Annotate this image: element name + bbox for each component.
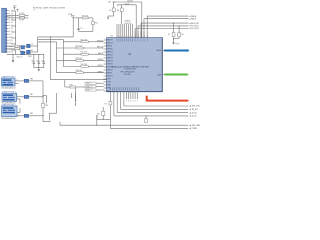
IC U1 body (107, 38, 163, 92)
svg-text:EP GND: EP GND (124, 74, 131, 76)
svg-text:R14 10K: R14 10K (81, 64, 88, 66)
svg-text:090-0506-0301-00: 090-0506-0301-00 (2, 118, 16, 120)
svg-text:EEDIO: EEDIO (107, 40, 113, 42)
wire top fan USBDM (147, 15, 197, 38)
svg-text:RX: RX (11, 22, 13, 24)
wire bottom net A_USB_DWN (60, 124, 201, 127)
svg-text:RX: RX (31, 50, 33, 52)
wire Q cluster interconnect (20, 44, 38, 53)
transistor Q3 (27, 44, 31, 47)
wire stub down (75, 88, 76, 101)
capacitor C2 (36, 54, 40, 67)
wire top fan PHY_LED1 (138, 25, 199, 38)
IC U1 left pins (104, 40, 114, 93)
svg-text:P5V0: P5V0 (176, 44, 180, 46)
svg-text:8: 8 (9, 31, 10, 33)
svg-text:R7: R7 (168, 34, 170, 36)
resistor R9 vertical (105, 91, 112, 128)
svg-text:4: 4 (135, 100, 136, 102)
resistor R19 (73, 15, 93, 19)
svg-text:◂PHY_LED1: ◂PHY_LED1 (189, 25, 199, 28)
svg-text:C3: C3 (41, 60, 43, 62)
IC U1 top pins (117, 24, 149, 41)
transistor Q4 (27, 50, 31, 54)
wire hook left (107, 16, 114, 19)
svg-text:R1 33: R1 33 (19, 13, 24, 15)
power flag top-center (108, 2, 115, 4)
svg-text:C4: C4 (80, 28, 82, 30)
svg-text:GPIO0: GPIO0 (97, 59, 103, 61)
svg-text:EECLK: EECLK (107, 43, 114, 45)
svg-text:R16: R16 (70, 84, 73, 86)
resistor R7 (168, 23, 175, 43)
capacitor C3 (41, 54, 45, 67)
svg-text:2: 2 (17, 99, 18, 101)
note text (33, 6, 66, 11)
svg-text:FB1: FB1 (30, 94, 33, 96)
svg-text:9: 9 (9, 34, 10, 36)
wire bottom net A_ID_SD (117, 111, 197, 114)
svg-text:1: 1 (9, 10, 10, 12)
resistor R2 (7, 17, 29, 22)
resistor R12 row (63, 52, 104, 55)
svg-text:27: 27 (11, 34, 13, 36)
wire thick blue USB bus (162, 49, 189, 52)
wire top fan VBUS_DET (141, 22, 199, 38)
svg-text:R9: R9 (105, 103, 107, 105)
wire top fan PHY_LED2 (135, 27, 199, 37)
wire net CLK top (118, 3, 137, 37)
svg-text:VBUS: VBUS (156, 50, 162, 52)
svg-text:◂USBDM: ◂USBDM (189, 15, 197, 18)
svg-text:VDD3V3: VDD3V3 (127, 1, 133, 3)
svg-text:1: 1 (17, 95, 18, 97)
svg-text:4: 4 (9, 19, 10, 21)
ferrite bead FB2 (17, 113, 38, 118)
svg-text:C2: C2 (36, 60, 38, 62)
svg-text:TXN_T: TXN_T (86, 86, 93, 88)
svg-text:6: 6 (9, 25, 10, 27)
wire bottom net A_TPWM (110, 127, 197, 130)
svg-text:XCLK: XCLK (125, 3, 129, 5)
ferrite bead FB1 (17, 94, 38, 99)
wire long bottom net (59, 122, 61, 126)
svg-text:R10 10K: R10 10K (81, 39, 88, 41)
svg-text:3V3: 3V3 (108, 2, 111, 4)
capacitor C4 (77, 18, 82, 31)
svg-text:G2: G2 (11, 10, 13, 12)
svg-text:R20: R20 (95, 23, 98, 25)
svg-text:NOTE: ALL CAPS X7R 0402 16V MI: NOTE: ALL CAPS X7R 0402 16V MIN (33, 6, 66, 9)
svg-text:RXP_T: RXP_T (86, 90, 93, 92)
resistor R8 (174, 25, 184, 38)
svg-text:3V3: 3V3 (13, 6, 16, 8)
connector J3 (2, 106, 17, 117)
svg-text:R11 10K: R11 10K (76, 46, 83, 48)
connector J2 (2, 93, 17, 101)
svg-text:R13 10K: R13 10K (76, 58, 83, 60)
connector J1 (2, 8, 7, 52)
svg-text:R6: R6 (117, 10, 119, 12)
resistor R21 (97, 107, 105, 120)
svg-text:TX: TX (31, 44, 33, 46)
power arrow down (172, 42, 179, 45)
IC U1 bottom pins (110, 87, 139, 102)
wire bottom net A_MII_INT (121, 108, 198, 111)
resistor R10 row (63, 39, 103, 42)
wire thick green link net (162, 73, 189, 76)
svg-text:GPIO2: GPIO2 (107, 55, 112, 57)
transistor Q2 (21, 51, 25, 55)
power flag VCC top-left (13, 6, 16, 10)
wire ground rail below connector (7, 54, 44, 60)
wire mesh to resistor ladder (38, 18, 74, 72)
svg-text:GPIO7: GPIO7 (107, 70, 112, 72)
wire connector pin bus vertical (12, 11, 16, 54)
wire bottom fan verticals (114, 91, 124, 116)
resistor R15 row (57, 70, 104, 73)
resistor R17 (145, 115, 148, 122)
svg-text:GPIO3: GPIO3 (107, 58, 112, 60)
svg-text:EECLK: EECLK (97, 47, 104, 49)
svg-text:GN: GN (11, 52, 13, 54)
ground arrow GND2 (38, 69, 40, 71)
svg-text:R8: R8 (182, 34, 184, 36)
svg-text:GN: GN (11, 28, 13, 30)
wire cap bank bottom rail (34, 67, 44, 69)
svg-text:U1: U1 (111, 36, 113, 38)
resistor R20 (92, 18, 98, 31)
svg-text:R15 10K: R15 10K (76, 70, 83, 72)
svg-text:R2 33: R2 33 (19, 20, 24, 22)
capacitor C1 (31, 54, 35, 67)
transistor Q1 (21, 46, 25, 49)
svg-text:FB0: FB0 (30, 78, 33, 80)
svg-text:EECS: EECS (107, 46, 113, 48)
svg-text:GPIO4: GPIO4 (107, 61, 112, 63)
svg-text:7: 7 (9, 28, 10, 30)
resistor R18 (42, 96, 51, 122)
ferrite pin labels (17, 95, 18, 116)
resistor R14 row (63, 64, 103, 67)
svg-text:TEST1: TEST1 (107, 76, 112, 78)
wire bottom-middle mesh (49, 93, 110, 126)
svg-text:R21: R21 (97, 114, 100, 116)
svg-text:GPIO6: GPIO6 (107, 67, 112, 69)
connector J4 (1, 78, 15, 86)
svg-text:GPIO1: GPIO1 (107, 52, 112, 54)
resistor R16 (65, 80, 85, 88)
resistor R4 (7, 48, 20, 50)
svg-text:EEDIO: EEDIO (97, 40, 103, 42)
svg-text:090-0506-0301-00: 090-0506-0301-00 (2, 87, 16, 89)
svg-text:◂PHY_LED2: ◂PHY_LED2 (189, 27, 199, 30)
resistor R1 (7, 13, 29, 16)
svg-text:◂VBUS_DET: ◂VBUS_DET (189, 22, 199, 25)
resistor R13 row (57, 58, 104, 61)
connector J1 pin stubs and numbers (7, 10, 15, 53)
svg-text:GPIO2: GPIO2 (97, 71, 103, 73)
power flag VCC2 (17, 9, 19, 11)
resistor R11 row (57, 46, 104, 49)
wire thick red power net (147, 96, 190, 102)
svg-text:GPIO0: GPIO0 (107, 49, 112, 51)
svg-text:◂USBDP: ◂USBDP (189, 17, 197, 20)
svg-text:CONTROLLER: CONTROLLER (124, 69, 136, 71)
ground arrow GND1 (12, 60, 15, 62)
svg-text:EECS: EECS (98, 53, 104, 55)
resistor R5 (109, 2, 115, 16)
svg-text:R5: R5 (109, 10, 111, 12)
power flag VDD33 (68, 13, 74, 18)
svg-text:▸CLKOUT: ▸CLKOUT (124, 22, 132, 25)
net flag TXN (85, 86, 104, 89)
wire bottom net A_ID_SC (114, 115, 198, 118)
svg-text:3V: 3V (11, 40, 13, 42)
svg-text:GPIO5: GPIO5 (107, 64, 112, 66)
resistor R3 (7, 45, 20, 47)
svg-text:GPIO1: GPIO1 (97, 65, 103, 67)
svg-text:C1: C1 (31, 60, 33, 62)
svg-text:1 2: 1 2 (33, 10, 35, 12)
wire bottom net A_ETH_CTRL (124, 105, 200, 108)
svg-text:4: 4 (130, 100, 131, 102)
svg-text:R12 10K: R12 10K (81, 52, 88, 54)
net flag TXP (85, 82, 104, 85)
resistor R6 (117, 5, 123, 24)
svg-text:5: 5 (9, 22, 10, 24)
wire RC bottom (79, 30, 93, 32)
wire long row to IC (50, 36, 107, 79)
ferrite bead FB0 (15, 78, 43, 97)
svg-text:R18: R18 (45, 105, 48, 107)
IC U1 part number (111, 65, 150, 76)
svg-text:TXP_T: TXP_T (86, 83, 92, 85)
net flag RXP (85, 89, 104, 92)
wire bead junctions (20, 96, 46, 117)
wire top fan USBDP (144, 17, 197, 37)
svg-text:R19 12K: R19 12K (82, 15, 89, 17)
wire net VDD top (114, 1, 142, 38)
svg-text:FB2: FB2 (30, 113, 33, 115)
